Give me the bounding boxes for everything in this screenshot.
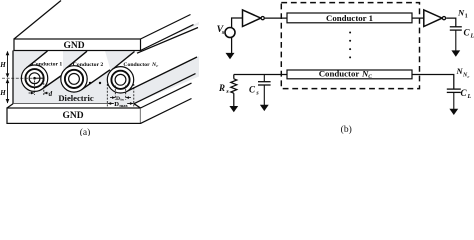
svg-text:L: L: [470, 34, 474, 40]
inverter U1: [243, 10, 265, 27]
svg-text:Conductor: Conductor: [319, 69, 360, 79]
ground (CL bottom): [449, 109, 458, 115]
ellipsis dots between conductor 2 and Nc: [89, 82, 101, 84]
svg-text:C: C: [464, 28, 471, 38]
svg-text:max: max: [119, 103, 128, 108]
conductor 1 cross-section circles: [21, 65, 47, 91]
wire conductor Nc left to Rs/Cs: [234, 74, 287, 76]
conductor Nc cross-section circles: [107, 67, 133, 93]
svg-text:Conductor 1: Conductor 1: [32, 61, 63, 67]
svg-text:C: C: [368, 74, 372, 80]
capacitor CL (top right): [450, 27, 462, 51]
conductor 1 transmission line block: [287, 13, 412, 23]
top GND slab: [14, 1, 194, 52]
svg-text:R: R: [218, 83, 225, 93]
resistor Rs: [218, 75, 237, 107]
conductor 2 cross-section circles: [61, 66, 87, 92]
wire conductor 1 output to inverter U2: [412, 17, 424, 19]
wire Vs bottom: [231, 38, 233, 54]
ground (Rs): [229, 106, 238, 112]
ground (CL top): [451, 50, 460, 56]
svg-text:s: s: [225, 89, 229, 95]
svg-text:(a): (a): [80, 127, 91, 136]
svg-text:1: 1: [465, 13, 468, 19]
svg-text:c: c: [468, 74, 470, 79]
svg-text:C: C: [249, 85, 256, 95]
bottom GND slab: [7, 83, 192, 123]
svg-text:N: N: [457, 8, 465, 18]
vertical ellipsis dots: [349, 32, 351, 59]
conductor Nc transmission line block: [287, 69, 412, 80]
cylinder of conductor 2: [66, 51, 111, 90]
svg-text:Conductor 2: Conductor 2: [73, 62, 104, 68]
node N1 wire: [446, 18, 456, 27]
wire conductor Nc output to node NNc: [412, 75, 454, 89]
svg-text:Conductor: Conductor: [123, 62, 150, 68]
svg-text:Dielectric: Dielectric: [58, 93, 93, 103]
svg-text:d: d: [49, 90, 53, 98]
wire Vs top to inverter input: [232, 18, 243, 28]
svg-text:Conductor 1: Conductor 1: [326, 13, 373, 23]
svg-text:C: C: [461, 88, 468, 98]
svg-text:H: H: [0, 61, 6, 69]
D_in / D_max dimensions (conductor Nc): [107, 84, 134, 107]
svg-text:s: s: [255, 91, 259, 97]
dashed MTL box: [281, 3, 419, 89]
H dimension (left): [2, 51, 35, 104]
svg-text:GND: GND: [62, 111, 83, 121]
svg-text:GND: GND: [63, 41, 84, 51]
ground (Cs): [260, 105, 269, 111]
ground (Vs): [226, 53, 235, 59]
d dimension (conductor 1 core): [29, 80, 49, 96]
wire U1 output to conductor 1: [265, 17, 287, 19]
svg-text:H: H: [0, 89, 6, 97]
capacitor CL (bottom right): [447, 89, 461, 109]
dielectric slab (gray): [13, 22, 199, 104]
wire cylinders (3D tangent bands): [26, 25, 199, 92]
cylinder of conductor Nc: [112, 25, 199, 92]
svg-text:(b): (b): [341, 124, 352, 135]
svg-text:c: c: [156, 63, 158, 68]
inverter U2: [424, 10, 446, 27]
cylinder of conductor 1: [26, 51, 63, 89]
svg-text:L: L: [467, 94, 472, 100]
voltage source Vs: [217, 24, 235, 38]
capacitor Cs: [258, 75, 271, 106]
bottom GND slab top-face sliver: [7, 104, 141, 108]
